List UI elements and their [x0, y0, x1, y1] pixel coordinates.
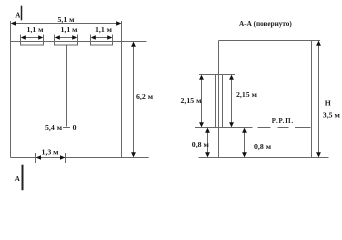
section chamber right wall: [311, 41, 313, 158]
plan right wall extension line: [121, 21, 123, 158]
dimension 6,2 m label: [136, 92, 154, 101]
level label R.R.P.: [272, 118, 294, 125]
central axis line: [66, 45, 68, 127]
dimension 1,3 m ticks: [36, 153, 66, 163]
svg-text:А: А: [15, 12, 20, 20]
axis bottom tick: [63, 127, 70, 129]
dimension H line: [316, 41, 321, 158]
window W3 rect: [91, 42, 113, 46]
dimension 0,8 m right label: [254, 142, 272, 151]
window W1 dimension arrows: [21, 35, 44, 40]
dimension 0,8 m right line: [242, 128, 247, 158]
dimension 1,3 m arrows: [36, 155, 66, 160]
svg-text:А: А: [15, 175, 20, 183]
dimension 1,3 m label: [41, 148, 59, 157]
axis label 0: [73, 123, 77, 132]
dimension 2,15 m right label: [236, 90, 258, 99]
svg-text:Р.Р.П.: Р.Р.П.: [272, 118, 294, 125]
floor level line solid part: [195, 127, 253, 129]
floor level line dashes: [258, 127, 311, 129]
window W2 rect: [55, 42, 78, 46]
window W3 dimension arrows: [91, 35, 113, 40]
svg-text:5,4 м: 5,4 м: [45, 123, 63, 132]
dimension 2,15 m left line: [199, 75, 204, 128]
axis label 5,4 m: [45, 123, 63, 132]
section chamber left wall: [218, 41, 220, 158]
section mark A bottom: bar: [22, 165, 24, 191]
opening left line: [215, 75, 217, 128]
svg-text:1,3 м: 1,3 м: [41, 148, 59, 157]
window W3 dimension ticks: [91, 35, 113, 45]
svg-text:0,8 м: 0,8 м: [254, 142, 272, 151]
dimension 5,1 m line: [11, 21, 122, 26]
svg-text:Н: Н: [325, 99, 331, 108]
dimension 6,2 m line: [131, 42, 136, 158]
svg-text:5,1 м: 5,1 м: [57, 15, 75, 24]
lintel line: [199, 74, 235, 76]
svg-text:0: 0: [73, 123, 77, 132]
dimension H label: [325, 99, 331, 108]
dimension 5,1 m label: [57, 15, 75, 24]
dimension 3,5 m label: [323, 111, 341, 120]
window W2 dimension arrows: [55, 35, 78, 40]
opening right line: [222, 75, 224, 128]
plan top wall line: [11, 41, 147, 43]
dimension 0,8 m left line: [205, 128, 210, 158]
section mark A top: bar: [21, 6, 23, 21]
plan left wall edge: [10, 21, 12, 158]
section chamber top line: [219, 40, 321, 42]
dimension 2,15 m left label: [181, 96, 203, 105]
dimension 0,8 m left label: [192, 140, 210, 149]
section mark A top: letter: [15, 12, 20, 20]
window W2 label 1,1 m: [60, 25, 78, 34]
svg-text:2,15 м: 2,15 м: [236, 90, 258, 99]
svg-text:1,1 м: 1,1 м: [26, 25, 44, 34]
window W1 rect: [21, 42, 44, 46]
window W1 label 1,1 m: [26, 25, 44, 34]
window W1 dimension ticks: [21, 35, 44, 45]
window W3 label 1,1 m: [95, 25, 113, 34]
plan bottom wall line: [11, 157, 149, 159]
dimension 2,15 m right line: [229, 75, 234, 128]
svg-text:1,1 м: 1,1 м: [95, 25, 113, 34]
section ground bottom line: [199, 157, 329, 159]
svg-text:2,15 м: 2,15 м: [181, 96, 203, 105]
section title A-A (rotated): [239, 20, 292, 28]
svg-text:3,5 м: 3,5 м: [323, 111, 341, 120]
svg-text:6,2 м: 6,2 м: [136, 92, 154, 101]
svg-text:А-А (повернуто): А-А (повернуто): [239, 20, 292, 28]
svg-text:0,8 м: 0,8 м: [192, 140, 210, 149]
section mark A bottom: letter: [15, 175, 20, 183]
window W2 dimension ticks: [55, 35, 78, 45]
svg-text:1,1 м: 1,1 м: [60, 25, 78, 34]
